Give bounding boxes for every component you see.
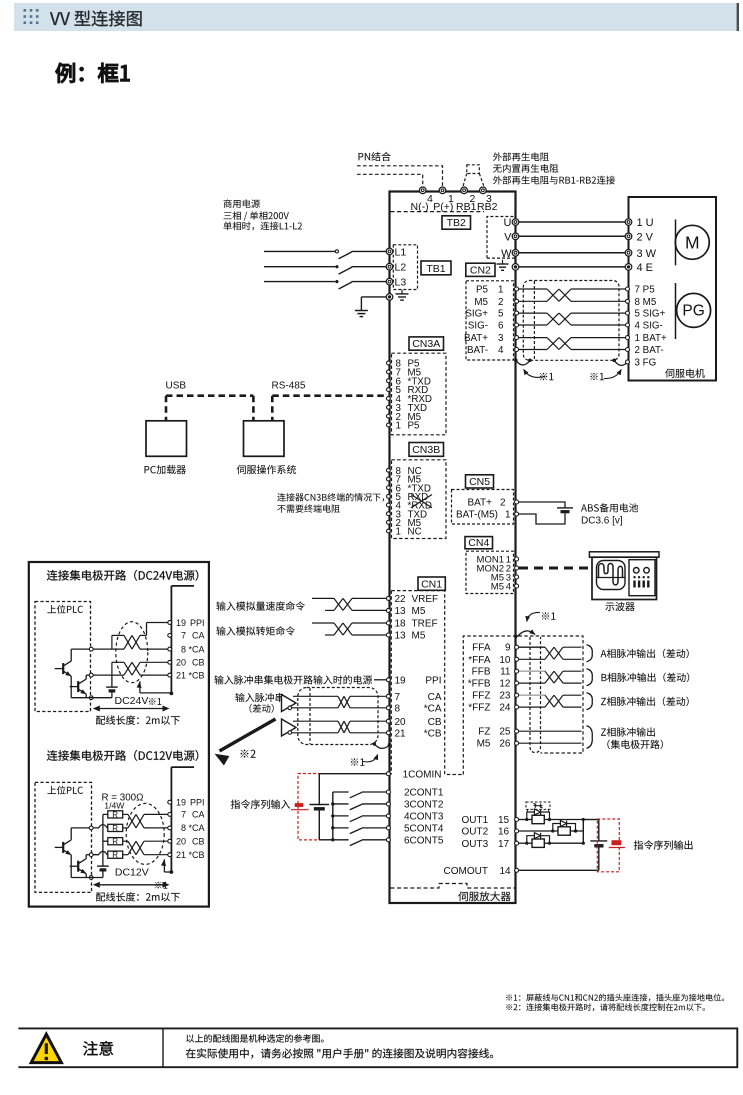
terminal U motor (625, 219, 632, 226)
header title (50, 10, 142, 26)
pin 5CONT4 (386, 826, 390, 830)
ground symbol (terminal 4 left) (396, 290, 409, 300)
label 1/4W (104, 801, 125, 811)
pin CN4 1 (515, 557, 519, 561)
label box CN2 (466, 263, 495, 276)
svg-text:CB: CB (192, 837, 205, 847)
wire CA pair (DC12V) (123, 814, 168, 828)
pin OUT3 17 (515, 841, 519, 845)
label 输入模拟转矩命令 (216, 626, 295, 635)
wire mains L3 with switch (264, 280, 386, 289)
svg-text:1 BAT+: 1 BAT+ (635, 333, 667, 344)
pin encoder motor (626, 348, 630, 352)
encoder cable shield sheath (523, 281, 619, 361)
example box outer (29, 562, 209, 907)
wiring length dim arrow (DC24V) (93, 706, 170, 712)
pin CN3B 8 NC (387, 466, 422, 477)
svg-text:*CA: *CA (188, 644, 204, 654)
label PC加载器 (145, 465, 186, 474)
PLC common node (DC12V) (89, 876, 93, 880)
pin 20 CB (DC12V) (168, 837, 205, 847)
svg-text:CN1: CN1 (421, 578, 442, 590)
caution divider (162, 1028, 164, 1067)
dashed box output pulses (463, 636, 583, 775)
svg-text:USB: USB (166, 380, 187, 391)
pin 3 FG (626, 360, 630, 364)
oscilloscope (589, 552, 659, 600)
svg-text:17: 17 (498, 839, 510, 850)
big arrow ※2 (215, 719, 276, 766)
note ※1 shield (506, 994, 724, 1002)
pin 1COMIN (386, 772, 390, 776)
svg-text:M5: M5 (474, 297, 488, 308)
warning triangle (31, 1034, 61, 1062)
svg-text:CN2: CN2 (470, 264, 491, 276)
shield arc CA/CB (374, 744, 389, 749)
svg-text:PPI: PPI (190, 798, 205, 808)
output shield sheath (530, 637, 541, 753)
svg-text:12: 12 (499, 679, 511, 690)
svg-text:6CONT5: 6CONT5 (404, 835, 444, 846)
shield arrow CA/CB (363, 754, 378, 762)
driver U1 (CA) (282, 695, 297, 712)
pin 7 CA (DC24V) (168, 631, 205, 641)
shield arrow right (604, 369, 622, 379)
pin 4CONT3 (386, 814, 390, 818)
shield sheath ellipse (DC12V) (126, 803, 164, 864)
label 6CONT5 (404, 835, 444, 846)
label Z相脉冲输出 (601, 727, 655, 736)
svg-text:M5: M5 (412, 606, 426, 617)
wire FG arc (614, 360, 627, 365)
PLC dashed box (DC12V) (35, 782, 92, 892)
switch 4CONT3 (333, 816, 387, 822)
svg-text:2CONT1: 2CONT1 (404, 788, 444, 799)
svg-text:21: 21 (176, 850, 186, 860)
terminal P(+) (439, 187, 446, 194)
pin CN1 19 PPI (386, 675, 441, 686)
relay K1 (OUT1) (519, 809, 584, 824)
wire RS-485 (thick dashed) (272, 396, 387, 420)
wire mains L1 with switch (264, 250, 386, 259)
svg-text:4 E: 4 E (637, 262, 654, 274)
pin encoder amp (515, 323, 519, 327)
svg-text:3 W: 3 W (637, 248, 657, 260)
PLC output node *CA (DC24V) (89, 647, 93, 651)
svg-text:PPI: PPI (425, 675, 441, 686)
svg-text:P5: P5 (408, 421, 421, 432)
label ※1 (DC12V) (155, 882, 168, 889)
pin CN1 13 M5 (386, 606, 425, 617)
pin CN4 4 (515, 584, 519, 588)
svg-text:L3: L3 (395, 277, 407, 289)
pin COMOUT 14 (515, 868, 519, 872)
pin FZ (515, 729, 519, 733)
dashed box CN1 (391, 591, 463, 775)
label box TB2 (442, 216, 471, 229)
relay K2 (OUT2) (519, 821, 584, 836)
pin encoder motor (626, 311, 630, 315)
PLC output node *CB (DC12V) (89, 853, 93, 857)
note ※2 length (506, 1003, 705, 1011)
svg-text:FFA: FFA (472, 643, 491, 654)
caution line 1 (186, 1034, 323, 1042)
svg-text:R: R (112, 810, 118, 819)
pin 19 PPI (DC12V) (168, 798, 205, 808)
svg-text:2 V: 2 V (637, 232, 654, 244)
label M5 26 (477, 739, 511, 750)
label 3 W motor (637, 248, 657, 260)
svg-text:13: 13 (395, 631, 407, 642)
red battery symbol (input) (291, 803, 309, 810)
svg-text:CN4: CN4 (468, 537, 489, 549)
label L1 (395, 246, 407, 258)
svg-text:16: 16 (498, 827, 510, 838)
label 7 P5 (motor) (635, 285, 656, 296)
svg-text:*FFZ: *FFZ (468, 703, 490, 714)
label FZ 25 (478, 727, 511, 738)
transistor Q1 (DC24V) (55, 649, 90, 698)
brace Z open collector (587, 726, 593, 748)
label 1 BAT+ (motor) (635, 333, 667, 344)
label CN4 MON1 1 (477, 555, 511, 566)
label 4 SIG- (motor) (635, 321, 663, 332)
pin 3CONT2 (386, 802, 390, 806)
wire M5 26 (519, 742, 582, 744)
svg-text:*CA: *CA (188, 823, 204, 833)
label *FFZ 24 (468, 703, 511, 714)
label RS-485 (272, 380, 306, 391)
svg-text:COMOUT: COMOUT (444, 866, 488, 877)
red dashed box (output) (597, 819, 619, 872)
svg-text:L2: L2 (395, 262, 407, 274)
pin CN4 2 (515, 566, 519, 570)
note 无内置再生电阻 (493, 164, 558, 173)
brace B phase (587, 669, 593, 686)
wire TREF pair (312, 623, 386, 635)
svg-text:2 BAT-: 2 BAT- (635, 345, 664, 356)
svg-text:10: 10 (499, 655, 511, 666)
pin CN1 20 CB (386, 717, 441, 728)
caution box (18, 1028, 737, 1067)
svg-text:PG: PG (682, 303, 704, 320)
label DC24V (115, 695, 149, 707)
pin BAT+ 2 (515, 500, 519, 504)
terminal V motor (625, 233, 632, 240)
driver U2 (CB) (282, 719, 297, 736)
pin OUT2 16 (515, 829, 519, 833)
servo amplifier box (390, 192, 516, 904)
wire MON2 to scope (thick dashed) (519, 567, 589, 570)
svg-text:2: 2 (500, 498, 506, 509)
label 1 U motor (637, 217, 654, 229)
label SIG+ 5 (amp) (465, 309, 504, 320)
svg-text:23: 23 (499, 691, 511, 702)
svg-text:7: 7 (181, 810, 186, 820)
shield arc top (518, 629, 536, 636)
pin CN1 8 *CA (386, 703, 441, 714)
wire V (519, 235, 625, 237)
wire PPI jog (DC24V) (147, 623, 168, 636)
svg-text:CN3A: CN3A (412, 338, 440, 350)
pin 8 *CA (DC24V) (168, 644, 205, 654)
pin CN1 7 CA (386, 692, 441, 703)
label FFZ 23 (472, 691, 511, 702)
label ※1 (output pulses) (542, 612, 556, 619)
wire PN dashed to P(+) (357, 166, 443, 187)
svg-text:8: 8 (181, 823, 186, 833)
terminal L1 (386, 248, 393, 255)
label 配线长度 2m以下 (DC24V) (96, 715, 180, 724)
wire battery + (519, 502, 565, 508)
pin *FFA (515, 657, 519, 661)
svg-text:5: 5 (498, 309, 504, 320)
svg-text:*CB: *CB (188, 670, 204, 680)
label 上位PLC (DC24V) (47, 605, 82, 614)
shield dot top (514, 635, 518, 639)
wire VREF pair (312, 598, 386, 610)
note 外部再生电阻与RB1-RB2连接 (493, 176, 615, 185)
label FFB 11 (472, 667, 511, 678)
wire pair cap CB (DC24V) (111, 662, 113, 675)
resistor R3 (DC12V) (103, 837, 123, 846)
pin FFA (515, 645, 519, 649)
label OUT2 16 (462, 827, 510, 838)
label CN4 M5 3 (491, 573, 511, 584)
label Z相脉冲输出（差动） (601, 697, 689, 706)
label 指令序列输入 (231, 800, 290, 809)
emitter common wire (DC12V) (71, 877, 103, 879)
label PN结合 (359, 152, 391, 161)
encoder PG bar (675, 283, 677, 339)
label 1COMIN (403, 769, 442, 780)
wire COMOUT (519, 869, 599, 871)
label M5 2 (amp) (474, 297, 503, 308)
label P5 1 (amp) (476, 285, 503, 296)
shield drain wire (DC24V) (137, 681, 174, 695)
label 上位PLC (DC12V) (47, 786, 82, 795)
pin FFZ (515, 693, 519, 697)
switch 3CONT2 (333, 804, 387, 810)
caution line 2 (186, 1048, 493, 1058)
PLC output node *CB (DC24V) (89, 673, 93, 677)
pin 2CONT1 (386, 790, 390, 794)
wire CB pair (292, 721, 387, 733)
svg-text:4CONT3: 4CONT3 (404, 812, 444, 823)
title 连接集电极开路 DC12V (47, 750, 198, 761)
svg-text:8: 8 (395, 703, 401, 714)
svg-text:RB1: RB1 (456, 201, 477, 213)
label DC12V (115, 866, 149, 878)
svg-text:CA: CA (192, 631, 205, 641)
pin encoder amp (515, 287, 519, 291)
red dashed box (input) (298, 774, 319, 840)
pin CN3B 7 M5 (387, 475, 422, 486)
wire CA pair (292, 696, 387, 708)
label box CN4 (465, 537, 493, 549)
svg-text:14: 14 (500, 866, 512, 877)
pin CN3B 4 *RXD (387, 501, 433, 512)
svg-text:6: 6 (498, 321, 504, 332)
label OUT3 17 (462, 839, 510, 850)
wire pulse pair 1 (519, 647, 582, 659)
label box TB1 (421, 261, 451, 275)
pin CN3A 8 P5 (387, 359, 421, 370)
svg-text:1: 1 (498, 285, 503, 296)
label （差动） (249, 704, 273, 713)
svg-text:M: M (685, 233, 700, 253)
shield dot left (514, 359, 532, 363)
note 商用电源 (224, 199, 260, 208)
svg-text:L1: L1 (395, 246, 407, 258)
ground symbol (mains) (355, 311, 368, 317)
label 指令序列输出 (634, 840, 693, 849)
shield dots CA/CB (373, 742, 392, 746)
label SIG- 6 (amp) (468, 321, 504, 332)
label 2CONT1 (404, 788, 444, 799)
terminal RB1 (461, 187, 468, 194)
label OUT1 15 (462, 815, 510, 826)
label COMOUT 14 (444, 866, 512, 877)
svg-text:19: 19 (176, 618, 186, 628)
label FFA 9 (472, 643, 511, 654)
shield dot right (612, 359, 616, 363)
wire battery - (519, 513, 565, 524)
svg-text:CB: CB (192, 658, 205, 668)
svg-text:8 M5: 8 M5 (635, 297, 657, 308)
wire encoder pair 1 (519, 289, 626, 301)
pin CN4 3 (515, 575, 519, 579)
svg-text:19: 19 (395, 675, 407, 686)
pin BAT-(M5) 1 (515, 512, 519, 516)
svg-text:FZ: FZ (478, 727, 490, 738)
pin CN3B 6 *TXD (387, 483, 431, 494)
label 5CONT4 (404, 823, 444, 834)
svg-text:13: 13 (395, 606, 407, 617)
svg-text:*FFA: *FFA (468, 655, 491, 666)
shield arrow top (525, 612, 540, 622)
label 4 E (637, 262, 654, 274)
pin encoder motor (626, 336, 630, 340)
wire CA pair (DC24V) (93, 635, 168, 649)
pin CN1 13 M5 (386, 631, 425, 642)
svg-text:25: 25 (499, 727, 511, 738)
svg-text:*CA: *CA (424, 703, 442, 714)
label L2 (395, 262, 407, 274)
label ※1 (CN1) (351, 758, 365, 765)
wire pulse pair 2 (519, 671, 582, 683)
dashed box CN3B (392, 460, 447, 539)
pin CN1 21 *CB (386, 728, 441, 739)
relay K1 alt (dashed diode box) (526, 802, 550, 812)
svg-text:1: 1 (396, 421, 401, 432)
pin *FFB (515, 681, 519, 685)
svg-text:M5: M5 (412, 631, 426, 642)
brace A phase (587, 645, 593, 662)
wire ground to earth (361, 297, 386, 310)
svg-text:3CONT2: 3CONT2 (404, 800, 444, 811)
svg-text:DC3.6 [v]: DC3.6 [v] (581, 516, 623, 527)
label CN4 MON2 2 (477, 564, 511, 575)
terminal U amp (512, 219, 519, 226)
pin encoder motor (626, 287, 630, 291)
svg-text:4: 4 (498, 345, 504, 356)
note 连接器CN3B终端 (277, 493, 384, 502)
svg-text:*CB: *CB (424, 728, 442, 739)
svg-text:SIG+: SIG+ (465, 309, 488, 320)
label 4CONT3 (404, 812, 444, 823)
label 伺服操作系统 (237, 465, 296, 474)
pin 21 *CB (DC12V) (168, 850, 205, 860)
wire encoder pair 2 (519, 313, 626, 325)
label ※1 (DC24V) (149, 698, 162, 705)
svg-text:OUT2: OUT2 (462, 827, 489, 838)
pin *FFZ (515, 705, 519, 709)
svg-text:5 SIG+: 5 SIG+ (635, 309, 666, 320)
svg-text:4: 4 (506, 582, 511, 593)
motor M circle (675, 225, 709, 259)
svg-text:1 U: 1 U (637, 217, 654, 229)
dashed box CN4 (466, 551, 514, 593)
label box CN3B (409, 443, 444, 457)
label （集电极开路） (607, 740, 663, 749)
terminal E motor (625, 264, 632, 271)
pin 20 CB (DC24V) (168, 658, 205, 668)
transistor Q2 (DC12V) (70, 855, 90, 878)
resistor R4 (DC12V) (93, 851, 123, 860)
label A相脉冲输出（差动） (601, 649, 689, 658)
relay K3 (OUT3) (519, 833, 584, 848)
svg-text:FFB: FFB (472, 667, 491, 678)
PLC output node *CA (DC12V) (89, 826, 93, 830)
pin CN3A 3 TXD (387, 403, 428, 414)
label box CN3A (409, 337, 444, 350)
dashed box CN5 (452, 490, 514, 525)
pin CN3A 6 *TXD (387, 376, 431, 387)
svg-text:26: 26 (499, 739, 511, 750)
label 输入模拟量速度命令 (216, 601, 304, 610)
ground symbol (amp right) (497, 260, 509, 270)
wire CB pair (DC12V) (123, 841, 168, 855)
pin FFB (515, 669, 519, 673)
label BAT+ 2 (467, 498, 505, 509)
svg-text:24: 24 (499, 703, 511, 714)
partial amp outline (DC12V) (171, 767, 194, 872)
svg-text:20: 20 (176, 837, 186, 847)
terminal L3 (386, 278, 393, 285)
wiring length dim arrow (DC12V) (93, 882, 170, 888)
dashed box UVW (487, 217, 515, 259)
label 8 M5 (motor) (635, 297, 657, 308)
resistor R1 (DC12V) (103, 810, 123, 819)
wire E (519, 266, 625, 268)
pin CN3B 1 NC (387, 527, 422, 538)
svg-text:3 FG: 3 FG (635, 358, 657, 369)
pin CN1 18 TREF (386, 619, 437, 630)
svg-text:R: R (112, 837, 118, 846)
shield arc left (516, 360, 530, 365)
svg-text:8: 8 (181, 644, 186, 654)
title 连接集电极开路 DC24V (47, 570, 198, 581)
label ※1 (encoder left) (540, 373, 554, 380)
svg-text:18: 18 (395, 619, 407, 630)
CN3B RXD crossover (411, 495, 432, 508)
dashed box CN3A (392, 353, 447, 435)
svg-text:BAT+: BAT+ (467, 498, 492, 509)
pin CN3A 2 M5 (387, 412, 422, 423)
PLC dashed box (DC24V) (35, 602, 91, 712)
svg-text:22: 22 (395, 594, 407, 605)
